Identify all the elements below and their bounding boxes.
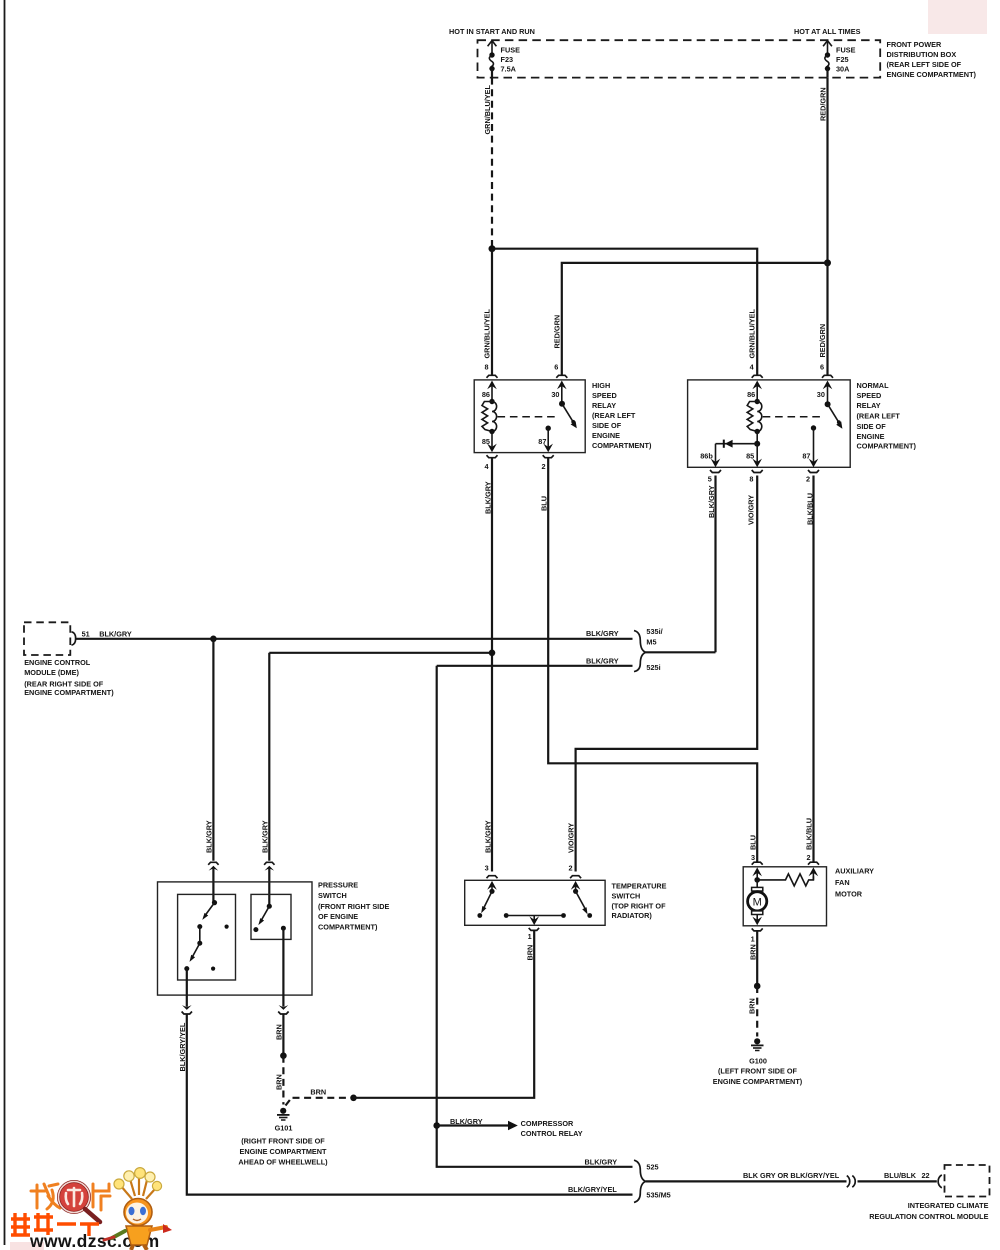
svg-text:RED/GRN: RED/GRN — [818, 324, 827, 358]
pressure switch stage 1 contacts — [184, 900, 228, 971]
wire BLU from K1 pin 87/2 down and right to fan motor — [540, 459, 758, 863]
wire BRN dashed to ground G100 — [747, 986, 757, 1037]
svg-text:SWITCH: SWITCH — [612, 891, 641, 900]
svg-text:RED/GRN: RED/GRN — [819, 87, 828, 121]
svg-text:86: 86 — [482, 390, 490, 399]
svg-text:2: 2 — [542, 462, 546, 471]
wire tee from pressure switch right contact to BLK/GRY node — [269, 650, 495, 657]
wire RED/GRN to high speed relay pin 6 — [552, 263, 827, 376]
wire BRN solid from junction to temperature switch pin 1 — [354, 931, 535, 1098]
front power distribution box — [478, 40, 977, 79]
svg-text:30A: 30A — [836, 65, 850, 74]
svg-text:BLK GRY OR BLK/GRY/YEL: BLK GRY OR BLK/GRY/YEL — [743, 1171, 840, 1180]
svg-text:ENGINE COMPARTMENT): ENGINE COMPARTMENT) — [887, 70, 977, 79]
K1 pin 87 — [538, 426, 553, 453]
svg-text:MODULE (DME): MODULE (DME) — [24, 668, 79, 677]
svg-text:NORMAL: NORMAL — [857, 381, 890, 390]
svg-text:3: 3 — [751, 853, 755, 862]
svg-text:2: 2 — [806, 853, 810, 862]
brace merge 535i/M5 + 525i — [634, 627, 663, 672]
svg-text:FUSE: FUSE — [501, 46, 521, 55]
K2 coil 86-85 — [746, 399, 762, 461]
arrow to compressor control relay — [437, 1117, 583, 1138]
svg-text:VIO/GRY: VIO/GRY — [747, 495, 756, 525]
svg-text:ENGINE COMPARTMENT: ENGINE COMPARTMENT — [239, 1147, 327, 1156]
wire BRN from stage2 contact down out of pressure switch — [282, 928, 284, 1007]
K2 pin 30 contact and blade — [817, 375, 843, 428]
svg-text:MOTOR: MOTOR — [835, 890, 863, 899]
K1 pin 8 connector entry — [482, 375, 498, 401]
temperature switch right blade — [573, 889, 592, 918]
svg-text:(FRONT RIGHT SIDE: (FRONT RIGHT SIDE — [318, 902, 389, 911]
ground G100 — [713, 1038, 803, 1086]
wire BLK/BLU from K2 pin 87/2 down to fan motor pin 2 — [805, 476, 815, 863]
K2 diode to pin 86b — [700, 440, 757, 468]
svg-text:F23: F23 — [501, 55, 514, 64]
wire BLK/GRY 525 to bottom brace — [437, 1126, 633, 1167]
temperature switch common bar — [504, 913, 566, 925]
svg-text:COMPRESSOR: COMPRESSOR — [521, 1119, 574, 1128]
K2 junction below coil — [754, 432, 760, 447]
svg-text:AUXILIARY: AUXILIARY — [835, 867, 874, 876]
svg-text:(REAR LEFT SIDE OF: (REAR LEFT SIDE OF — [887, 60, 962, 69]
svg-text:BRN: BRN — [747, 998, 756, 1014]
svg-text:HOT IN START AND RUN: HOT IN START AND RUN — [449, 27, 535, 36]
pressure switch outer box — [158, 880, 390, 995]
svg-text:SIDE OF: SIDE OF — [592, 421, 622, 430]
svg-text:FUSE: FUSE — [836, 46, 856, 55]
K2 pin 87 — [802, 425, 818, 467]
K1 pin 2 connector below — [542, 455, 554, 471]
svg-text:OF ENGINE: OF ENGINE — [318, 912, 358, 921]
svg-text:ENGINE: ENGINE — [592, 431, 620, 440]
K2 pin 4 connector entry — [747, 375, 763, 401]
svg-text:SPEED: SPEED — [592, 391, 617, 400]
svg-text:6: 6 — [554, 363, 558, 372]
ground G101 — [238, 1108, 328, 1167]
inline connector on pressure switch left feed — [208, 862, 218, 902]
svg-text:VIO/GRY: VIO/GRY — [567, 823, 576, 853]
svg-text:7.5A: 7.5A — [501, 65, 517, 74]
svg-text:M: M — [753, 897, 762, 909]
svg-text:RADIATOR): RADIATOR) — [612, 911, 653, 920]
wire from stage1 blade down out of pressure switch — [186, 969, 188, 1007]
svg-text:F25: F25 — [836, 55, 849, 64]
svg-text:(RIGHT FRONT SIDE OF: (RIGHT FRONT SIDE OF — [241, 1136, 325, 1145]
svg-text:535i/: 535i/ — [646, 627, 662, 636]
svg-text:BLK/GRY: BLK/GRY — [484, 820, 493, 853]
wire BLU/BLK pin 22 to ICRM — [858, 1171, 942, 1188]
wire to integrated climate regulation control module — [646, 1171, 847, 1181]
svg-text:BRN: BRN — [748, 944, 757, 960]
temperature switch pin 2 entry — [570, 876, 581, 892]
svg-text:BLK/GRY: BLK/GRY — [204, 820, 213, 853]
svg-text:BLK/GRY: BLK/GRY — [260, 820, 269, 853]
temperature switch pin 1 connector below — [526, 928, 540, 961]
wire BLK/GRY pressure switch left feed — [204, 639, 213, 861]
svg-text:AHEAD OF WHEELWELL): AHEAD OF WHEELWELL) — [238, 1158, 328, 1167]
svg-text:87: 87 — [538, 437, 546, 446]
wire BLK/GRY from K2 pin 86b/5 down to brace corner — [707, 476, 716, 653]
svg-text:525: 525 — [646, 1163, 658, 1172]
svg-text:BLK/GRY/YEL: BLK/GRY/YEL — [568, 1185, 617, 1194]
svg-text:BLK/GRY: BLK/GRY — [484, 481, 493, 514]
svg-text:BLK/GRY: BLK/GRY — [585, 1157, 618, 1166]
svg-text:3: 3 — [485, 864, 489, 873]
svg-text:BRN: BRN — [526, 945, 535, 961]
svg-text:6: 6 — [820, 363, 824, 372]
temperature switch left blade — [477, 889, 494, 918]
svg-text:FAN: FAN — [835, 878, 850, 887]
wire BRN dashed from ground G101 to junction — [286, 1088, 357, 1106]
wire BRN dashed to ground G101 — [274, 1056, 283, 1105]
svg-text:G101: G101 — [275, 1123, 293, 1132]
wire BRN solid to junction — [280, 1014, 287, 1059]
relay K2 NORMAL SPEED RELAY box — [688, 380, 917, 467]
svg-text:REGULATION CONTROL MODULE: REGULATION CONTROL MODULE — [869, 1212, 988, 1221]
K2 pin 85 exit — [752, 444, 762, 468]
fan motor M1 — [748, 880, 767, 925]
inline connector (double arc) — [847, 1176, 855, 1188]
pressure switch stage 2 contacts — [253, 904, 286, 932]
svg-text:87: 87 — [802, 451, 810, 460]
K2 pin 8 connector below — [749, 470, 762, 484]
svg-text:1: 1 — [751, 935, 755, 944]
wire RED/GRN to normal speed relay pin 6 — [818, 263, 828, 376]
svg-text:ENGINE: ENGINE — [857, 432, 885, 441]
temperature switch box — [465, 880, 667, 925]
svg-text:525i: 525i — [646, 663, 660, 672]
inline connector on BRN output — [275, 1005, 289, 1040]
pressure switch stage 1 box — [178, 894, 236, 980]
svg-text:CONTROL RELAY: CONTROL RELAY — [521, 1129, 583, 1138]
svg-text:51: 51 — [82, 629, 90, 638]
integrated climate regulation control module box — [869, 1165, 989, 1221]
svg-text:5: 5 — [708, 475, 712, 484]
svg-text:ENGINE COMPARTMENT): ENGINE COMPARTMENT) — [713, 1077, 803, 1086]
junction node on ECM wire — [210, 636, 217, 643]
junction node on RED/GRN — [824, 259, 831, 266]
svg-text:86: 86 — [747, 390, 755, 399]
svg-text:85: 85 — [746, 451, 754, 460]
svg-text:FRONT POWER: FRONT POWER — [887, 40, 942, 49]
svg-text:ENGINE COMPARTMENT): ENGINE COMPARTMENT) — [24, 688, 114, 697]
fuse F23 7.5A — [488, 41, 520, 78]
K1 coil 86-85 — [482, 399, 497, 446]
K2 pin 2 connector below — [806, 470, 819, 484]
svg-text:86b: 86b — [700, 451, 713, 460]
wire GRN/BLU/YEL dashed from fuse F23 — [483, 78, 492, 246]
svg-text:GRN/BLU/YEL: GRN/BLU/YEL — [748, 309, 757, 359]
inline connector on pressure switch right feed — [264, 862, 274, 906]
svg-text:COMPARTMENT): COMPARTMENT) — [318, 922, 378, 931]
engine control module (DME) box — [24, 622, 132, 697]
svg-text:PRESSURE: PRESSURE — [318, 880, 358, 889]
bottom brace merge 525 + 535/M5 — [634, 1160, 671, 1202]
pressure switch stage 2 box — [251, 894, 291, 939]
svg-text:30: 30 — [817, 390, 825, 399]
svg-text:RELAY: RELAY — [592, 401, 616, 410]
svg-text:BLU: BLU — [749, 835, 758, 850]
svg-text:BLK/GRY: BLK/GRY — [450, 1117, 483, 1126]
fan motor internal resistor — [757, 874, 813, 886]
K1 pin 4 connector below — [484, 455, 497, 471]
wire GRN/BLU/YEL branch to normal speed relay pin 4 — [492, 249, 757, 376]
svg-text:G100: G100 — [749, 1057, 767, 1066]
svg-text:22: 22 — [922, 1171, 930, 1180]
svg-text:COMPARTMENT): COMPARTMENT) — [592, 441, 652, 450]
svg-text:1: 1 — [528, 932, 532, 941]
svg-text:(TOP RIGHT OF: (TOP RIGHT OF — [612, 901, 667, 910]
svg-text:SPEED: SPEED — [857, 391, 882, 400]
svg-text:GRN/BLU/YEL: GRN/BLU/YEL — [483, 85, 492, 135]
svg-text:ENGINE CONTROL: ENGINE CONTROL — [24, 658, 91, 667]
svg-text:BLK/GRY: BLK/GRY — [99, 629, 132, 638]
fan motor pin 1 connector below — [748, 928, 762, 960]
junction node on GRN/BLU/YEL — [489, 245, 496, 252]
wire BLK/GRY 525 branch down from line to compressor node — [433, 666, 440, 1129]
svg-text:TEMPERATURE: TEMPERATURE — [612, 881, 667, 890]
temperature switch pin 3 entry — [487, 876, 498, 892]
svg-text:BLU/BLK: BLU/BLK — [884, 1171, 917, 1180]
svg-text:(REAR LEFT: (REAR LEFT — [592, 411, 636, 420]
svg-text:RELAY: RELAY — [857, 401, 881, 410]
wire BLK/GRY from K1 pin 85/4 down to temperature switch — [484, 459, 493, 873]
wire BLK/GRY/YEL down and right to brace (535/M5) — [178, 1014, 633, 1195]
svg-text:BLK/BLU: BLK/BLU — [805, 493, 814, 525]
svg-text:HOT AT ALL TIMES: HOT AT ALL TIMES — [794, 27, 861, 36]
svg-text:DISTRIBUTION BOX: DISTRIBUTION BOX — [887, 50, 957, 59]
fan motor pin 2 entry — [808, 862, 819, 880]
svg-text:HIGH: HIGH — [592, 381, 610, 390]
wire from brace up to K2 pin 86b — [646, 651, 716, 653]
svg-text:2: 2 — [568, 864, 572, 873]
fan motor pin 3 entry — [752, 862, 763, 883]
svg-text:2: 2 — [806, 475, 810, 484]
watermark dzsc logo — [11, 1168, 172, 1250]
svg-text:GRN/BLU/YEL: GRN/BLU/YEL — [483, 309, 492, 359]
svg-text:BLK/GRY: BLK/GRY — [707, 485, 716, 518]
svg-text:BLK/GRY/YEL: BLK/GRY/YEL — [178, 1022, 187, 1071]
svg-text:SWITCH: SWITCH — [318, 891, 347, 900]
K1 pin 85 exit — [487, 432, 497, 453]
relay K1 HIGH SPEED RELAY box — [474, 380, 652, 453]
svg-text:M5: M5 — [646, 638, 656, 647]
fuse F25 30A — [823, 41, 855, 78]
svg-text:COMPARTMENT): COMPARTMENT) — [857, 442, 917, 451]
svg-text:BRN: BRN — [310, 1088, 326, 1097]
svg-text:(REAR LEFT: (REAR LEFT — [857, 412, 901, 421]
auxiliary fan motor box — [743, 867, 874, 926]
svg-text:BLK/GRY: BLK/GRY — [586, 629, 619, 638]
wire BRN from fan motor to junction — [754, 931, 761, 989]
wire BLK/GRY from ECM pin 51 to brace (535i/M5) — [76, 629, 633, 639]
svg-text:535/M5: 535/M5 — [646, 1191, 670, 1200]
node HOT IN START AND RUN — [449, 27, 535, 36]
inline connector on BLK/GRY/YEL output — [182, 1005, 192, 1014]
wire RED/GRN from fuse F25 — [819, 78, 828, 263]
K1 pin 30 contact and blade — [551, 375, 576, 428]
svg-text:(LEFT FRONT SIDE OF: (LEFT FRONT SIDE OF — [718, 1067, 798, 1076]
svg-text:BLU: BLU — [540, 496, 549, 511]
svg-text:8: 8 — [484, 363, 488, 372]
svg-text:BRN: BRN — [275, 1024, 284, 1040]
wire BLK/GRY pressure switch right feed — [260, 653, 269, 861]
svg-text:INTEGRATED CLIMATE: INTEGRATED CLIMATE — [908, 1201, 989, 1210]
svg-text:BLK/BLU: BLK/BLU — [805, 818, 814, 850]
svg-text:RED/GRN: RED/GRN — [552, 315, 561, 349]
K2 coil-contact dashed link — [763, 416, 823, 418]
svg-text:30: 30 — [551, 390, 559, 399]
wire BLK/GRY 525i branch to brace — [437, 656, 633, 665]
svg-text:BRN: BRN — [274, 1074, 283, 1090]
wire VIO/GRY from K2 pin 85/8 down and left to temperature switch pin 2 — [567, 476, 758, 873]
K1 coil-contact dashed link — [498, 416, 558, 418]
svg-text:SIDE OF: SIDE OF — [857, 422, 887, 431]
svg-text:8: 8 — [749, 475, 753, 484]
wire GRN/BLU/YEL to high speed relay pin 8 — [483, 249, 493, 376]
K2 pin 5 connector below — [708, 470, 721, 484]
node HOT AT ALL TIMES — [794, 27, 861, 36]
svg-text:BLK/GRY: BLK/GRY — [586, 656, 619, 665]
